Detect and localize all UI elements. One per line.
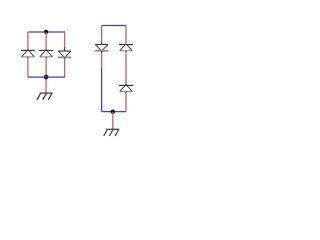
wire right-left branch upper (101, 26, 103, 42)
wire ground stem right circuit (112, 112, 114, 129)
wire top rail right circuit (102, 25, 126, 27)
wire ground stem left circuit (45, 74, 47, 93)
wire bottom rail right circuit (102, 111, 126, 113)
wire branch2 upper (45, 32, 47, 50)
wire top rail left circuit (28, 31, 65, 33)
wire branch1 lower (27, 58, 29, 77)
ground right circuit (104, 129, 120, 136)
diode D1 (21, 50, 35, 59)
ground left circuit (37, 93, 53, 100)
wire bottom rail left circuit (28, 76, 65, 78)
diode D4 (95, 42, 108, 54)
wire branch3 upper (64, 32, 66, 47)
diode D2 (39, 50, 53, 59)
wire branch1 upper (27, 32, 29, 50)
diode D5 (119, 44, 133, 53)
wire branch2 lower (45, 58, 47, 77)
wire branch3 lower (64, 59, 66, 78)
wire right-left branch middle red (101, 53, 103, 68)
node junction bottom left circuit (45, 76, 48, 79)
diode D6 (119, 84, 133, 94)
wire right-right branch upper (125, 26, 127, 44)
node junction bottom right circuit (111, 110, 115, 114)
diode D3 (58, 47, 71, 58)
wire right-right branch middle (125, 53, 127, 84)
wire right-left branch lower blue (101, 68, 103, 112)
wire right-right branch lower (125, 94, 127, 112)
node junction top left circuit (44, 30, 48, 34)
